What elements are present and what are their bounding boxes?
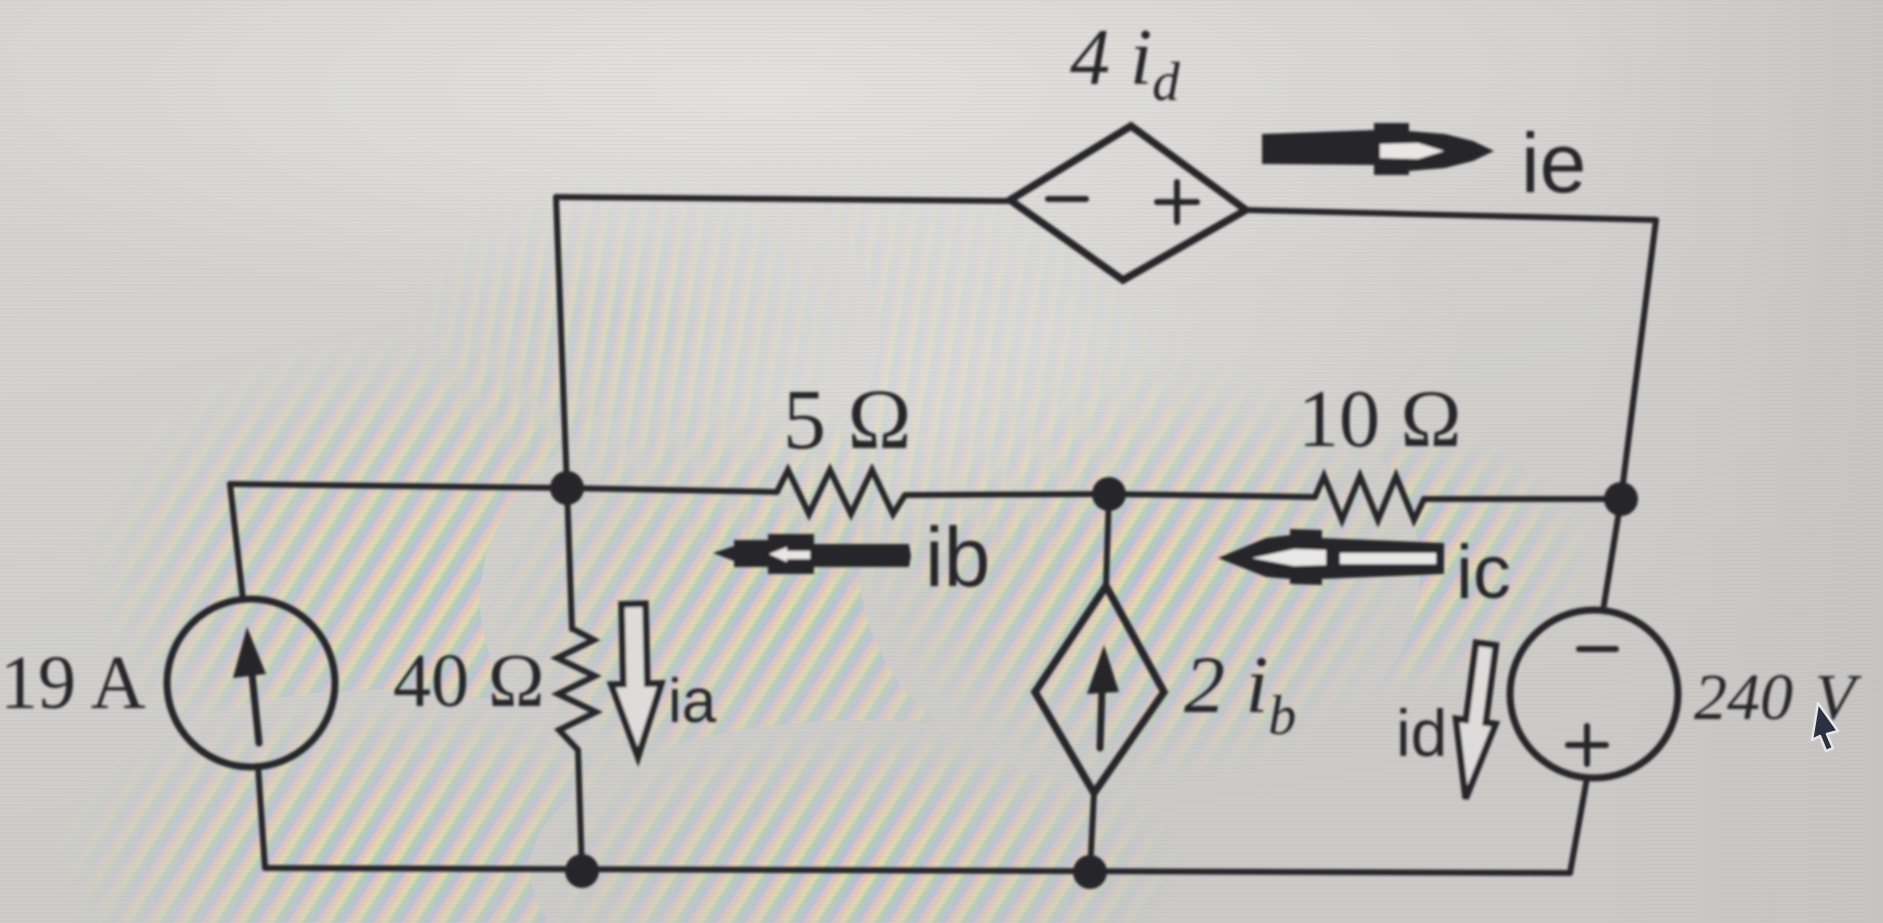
wire: left loop top horizontal — [230, 484, 567, 488]
mouse cursor — [1812, 703, 1838, 751]
svg-text:10 Ω: 10 Ω — [1298, 373, 1461, 464]
junction node D (bottom left) — [565, 854, 599, 888]
dependent current source diamond 2ib — [1035, 586, 1164, 793]
svg-text:ib: ib — [925, 510, 990, 604]
current source I 19A circle — [167, 599, 335, 767]
current arrow id (hollow down arrow) — [1446, 641, 1506, 801]
svg-text:19 A: 19 A — [0, 641, 146, 725]
current source 19A arrow — [233, 627, 266, 743]
current arrow ia (hollow down arrow) — [610, 603, 663, 757]
wire: left tall vertical — [556, 197, 567, 488]
wire: top right horizontal — [1246, 210, 1656, 220]
voltage source 240V circle — [1510, 610, 1678, 778]
wire: right vertical to source top — [1603, 499, 1621, 611]
junction node E (bottom center) — [1073, 855, 1107, 889]
wire: left top vertical — [230, 484, 243, 600]
junction node C (right middle) — [1604, 482, 1638, 516]
resistor 5 ohm zigzag — [777, 470, 905, 514]
current arrow ib (fat left arrow) — [713, 534, 911, 574]
junction node B (center middle) — [1092, 477, 1126, 511]
voltage source 240V plus sign — [1568, 726, 1606, 764]
svg-text:40 Ω: 40 Ω — [393, 639, 544, 723]
current arrow ie (fat right arrow) — [1262, 123, 1494, 175]
dependent current source arrow — [1087, 645, 1119, 748]
junction node A (left middle) — [550, 471, 584, 505]
wire: middle segment node to 10 ohm — [1109, 494, 1315, 497]
voltage source 240V minus sign — [1579, 646, 1616, 652]
svg-text:ie: ie — [1521, 116, 1586, 210]
wire: middle segment 5 ohm to node — [905, 494, 1109, 495]
svg-text:ia: ia — [668, 667, 717, 736]
wire: 40 ohm bottom lead — [578, 750, 582, 871]
dependent voltage source plus sign — [1157, 182, 1197, 222]
wire: dependent source bottom lead — [1090, 793, 1094, 872]
wire: bottom horizontal — [265, 868, 1570, 873]
wire: middle segment 10 ohm to right node — [1424, 496, 1621, 502]
resistor 10 ohm zigzag — [1315, 476, 1424, 520]
wire: right bottom vertical — [1570, 778, 1587, 873]
wire: middle segment to 5 ohm — [567, 488, 777, 492]
current arrow ic (fat left arrow hollow) — [1218, 529, 1444, 585]
wire: top left horizontal — [556, 197, 1008, 201]
wire: left bottom vertical — [258, 766, 265, 868]
svg-text:5 Ω: 5 Ω — [783, 371, 911, 467]
wire: right vertical upper — [1621, 220, 1656, 499]
dependent voltage source minus sign — [1048, 196, 1086, 202]
svg-text:ic: ic — [1456, 530, 1511, 615]
wire: dependent source top lead — [1106, 494, 1109, 586]
svg-text:id: id — [1396, 696, 1447, 770]
wire: 40 ohm top lead — [567, 488, 572, 629]
dependent voltage source diamond 4id — [1010, 126, 1246, 280]
resistor 40 ohm vertical zigzag — [557, 629, 596, 750]
svg-text:240V: 240V — [1694, 661, 1862, 734]
